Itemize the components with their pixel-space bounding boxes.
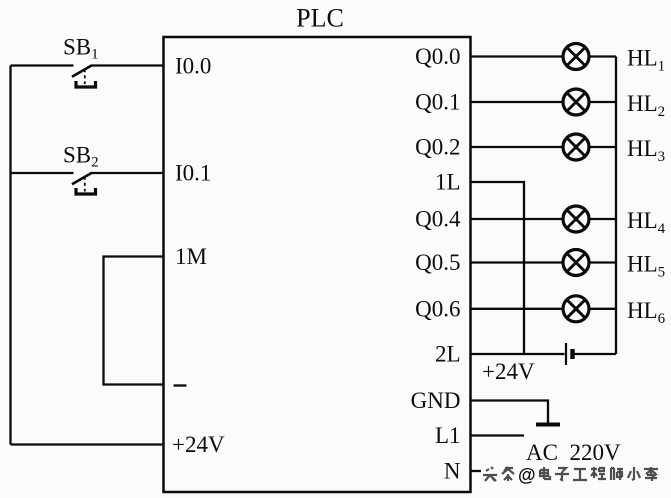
svg-text:Q0.2: Q0.2 xyxy=(415,135,460,160)
svg-text:+24V: +24V xyxy=(482,359,535,384)
wire 2L row to battery xyxy=(471,353,565,355)
wire N pin stub xyxy=(471,470,482,472)
wire SB2 row left segment xyxy=(11,172,74,174)
svg-text:Q0.4: Q0.4 xyxy=(415,207,461,232)
svg-text:Q0.5: Q0.5 xyxy=(415,250,460,275)
svg-text:PLC: PLC xyxy=(296,4,344,33)
wire Q0.6 to lamp HL6 xyxy=(471,308,563,310)
wire lamp HL3 to right bus xyxy=(590,146,617,148)
pushbutton SB2 contact xyxy=(72,173,92,184)
svg-text:GND: GND xyxy=(411,388,461,413)
pin minus label dash xyxy=(174,384,187,386)
svg-text:L1: L1 xyxy=(435,423,461,448)
wire 1M to minus bracket xyxy=(104,257,164,385)
ground earth bar xyxy=(536,423,560,427)
svg-text:1L: 1L xyxy=(435,170,461,195)
svg-text:Q0.0: Q0.0 xyxy=(415,44,460,69)
lamp HL3 symbol xyxy=(563,134,589,160)
pushbutton SB1 plunger dashed link xyxy=(84,69,86,84)
pushbutton SB2 plunger dashed link xyxy=(84,177,86,192)
wire left bus xyxy=(9,66,11,445)
wire right bus xyxy=(615,57,617,355)
svg-text:I0.0: I0.0 xyxy=(175,54,211,79)
wire GND pin to earth xyxy=(471,401,549,424)
lamp HL6 symbol xyxy=(563,296,589,322)
svg-text:2L: 2L xyxy=(435,342,461,367)
wire Q0.5 to lamp HL5 xyxy=(471,261,563,263)
wire Q0.1 to lamp HL2 xyxy=(471,101,563,103)
wire lamp HL2 to right bus xyxy=(590,101,617,103)
svg-text:@: @ xyxy=(518,465,536,485)
pushbutton SB1 actuator xyxy=(76,81,96,87)
battery BT1 +24V long plate xyxy=(565,343,567,365)
svg-text:+24V: +24V xyxy=(172,432,225,457)
wire lamp HL5 to right bus xyxy=(590,261,617,263)
wire Q0.4 to lamp HL4 xyxy=(471,218,563,220)
wire Q0.0 to lamp HL1 xyxy=(471,55,563,57)
pushbutton SB1 contact xyxy=(72,66,92,77)
wire Q0.2 to lamp HL3 xyxy=(471,146,563,148)
pushbutton SB2 actuator xyxy=(76,188,96,194)
svg-text:Q0.6: Q0.6 xyxy=(415,296,460,321)
battery BT1 short thick plate xyxy=(570,349,574,359)
wire L1 pin AC line xyxy=(471,434,525,436)
svg-text:Q0.1: Q0.1 xyxy=(415,90,460,115)
wire lamp HL6 to right bus xyxy=(590,308,617,310)
wire +24V supply row xyxy=(11,443,164,445)
wire lamp HL1 to right bus xyxy=(590,55,617,57)
wire battery to right bus xyxy=(575,353,617,355)
lamp HL1 symbol xyxy=(563,44,589,70)
svg-text:1M: 1M xyxy=(175,244,207,269)
wire SB1 row left segment xyxy=(11,64,74,66)
wire SB2 row right segment to I0.1 xyxy=(91,172,164,174)
lamp HL2 symbol xyxy=(563,89,589,115)
lamp HL5 symbol xyxy=(563,250,589,276)
svg-text:I0.1: I0.1 xyxy=(175,161,211,186)
PLC box U1 xyxy=(164,37,471,492)
wire lamp HL4 to right bus xyxy=(590,218,617,220)
watermark toutiao xyxy=(483,467,658,481)
lamp HL4 symbol xyxy=(563,206,589,232)
svg-text:N: N xyxy=(444,459,461,484)
svg-text:AC 220V: AC 220V xyxy=(526,440,621,465)
wire SB1 row right segment to I0.0 xyxy=(91,64,164,66)
wire 1L row and 1L vertical bus xyxy=(471,182,525,354)
